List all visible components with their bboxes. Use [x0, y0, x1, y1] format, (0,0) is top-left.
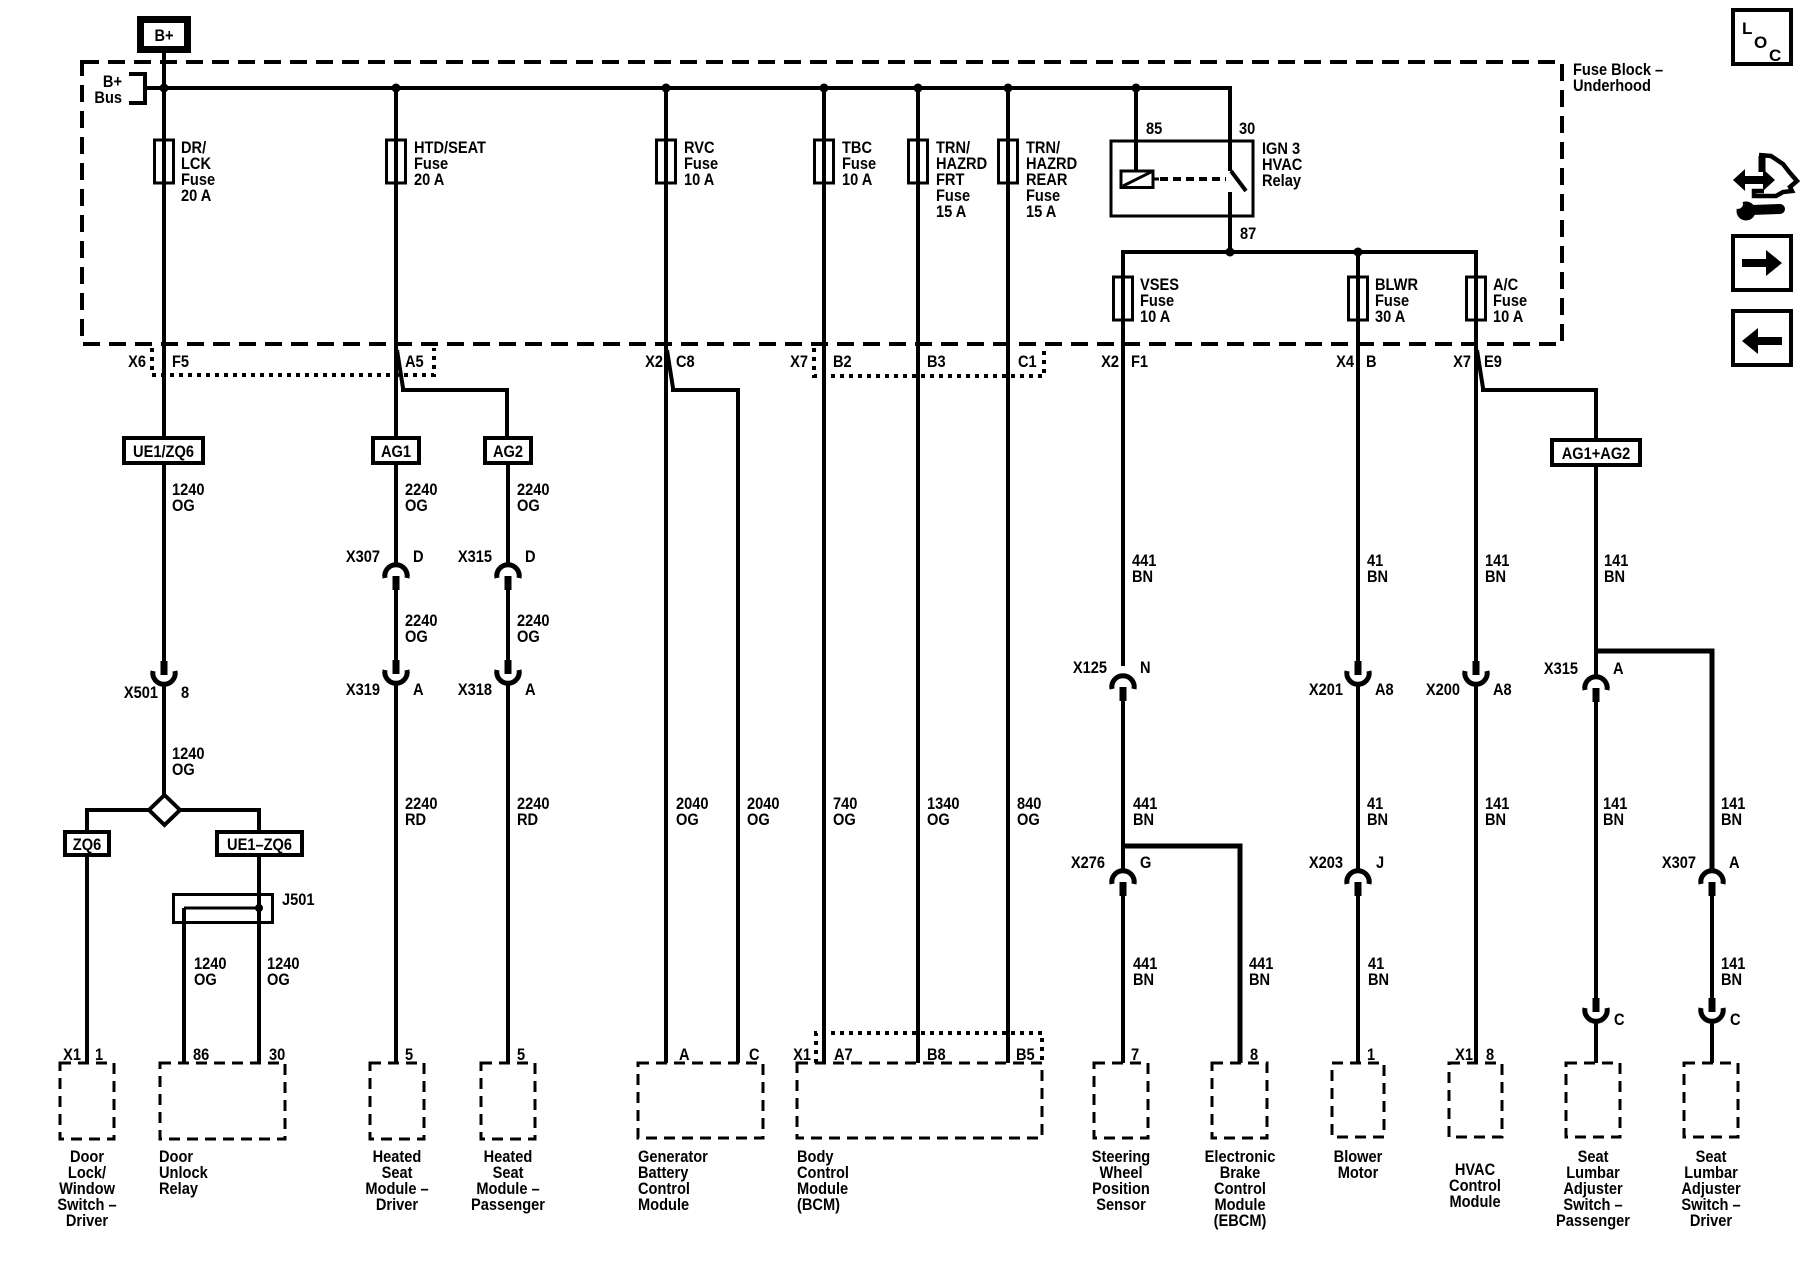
connector X501 pin 8	[124, 661, 189, 702]
svg-text:C1: C1	[1018, 353, 1037, 371]
fuse VSES 10A	[1114, 276, 1179, 326]
svg-text:A5: A5	[405, 353, 424, 371]
wire AG1+AG2 to X315	[1594, 465, 1598, 677]
wire B+ bus horizontal	[145, 86, 1230, 90]
node B3	[927, 353, 946, 371]
svg-text:C: C	[1614, 1011, 1625, 1029]
wire label 441 BN	[1132, 552, 1157, 586]
svg-text:X307: X307	[346, 548, 380, 566]
pin 87 label	[1240, 225, 1256, 243]
wire VSES drop	[1121, 250, 1125, 344]
svg-text:X318: X318	[458, 681, 492, 699]
pin C	[749, 1046, 760, 1064]
wire X315 to X318	[506, 590, 510, 660]
connector X307 pin D	[346, 548, 424, 590]
fuse DR/LCK 20A	[155, 139, 216, 205]
component HVAC Control Module	[1449, 1063, 1502, 1211]
wire ZQ6 to door lock switch	[85, 855, 89, 1063]
svg-text:OG: OG	[517, 497, 540, 515]
wire B+ terminal drop	[160, 53, 169, 344]
svg-text:(EBCM): (EBCM)	[1214, 1212, 1267, 1230]
fuse block underhood dashed border	[82, 62, 1562, 344]
wire label 1340 OG	[927, 795, 960, 829]
svg-text:OG: OG	[405, 497, 428, 515]
connector UE1/ZQ6	[124, 438, 203, 463]
relay IGN 3 HVAC box	[1111, 141, 1253, 216]
wire A/C drop	[1474, 250, 1478, 344]
connector UE1-ZQ6	[217, 832, 302, 855]
svg-text:BN: BN	[1721, 971, 1742, 989]
svg-text:J: J	[1376, 854, 1384, 872]
wire label 441 BN EBCM	[1249, 955, 1274, 989]
svg-text:J501: J501	[282, 891, 315, 909]
wire A5 to AG1	[394, 344, 398, 438]
svg-text:OG: OG	[517, 628, 540, 646]
svg-text:B: B	[1366, 353, 1377, 371]
node X4 B	[1336, 353, 1376, 371]
svg-text:10 A: 10 A	[1140, 308, 1171, 326]
wire X319 to heated seat driver	[394, 683, 398, 1063]
wire TBC drop	[820, 84, 829, 345]
wire X125 to X276	[1121, 701, 1125, 871]
connector ZQ6	[65, 832, 109, 855]
wire label 41 BN	[1368, 955, 1389, 989]
svg-text:OG: OG	[676, 811, 699, 829]
wire label 2240 OG	[405, 481, 438, 515]
svg-text:UE1/ZQ6: UE1/ZQ6	[133, 443, 194, 461]
connector X276 pin G	[1071, 854, 1152, 896]
svg-text:20 A: 20 A	[181, 187, 212, 205]
pin X1 A7	[793, 1046, 853, 1064]
relay actuation dashed link	[1160, 177, 1226, 181]
svg-text:Relay: Relay	[159, 1180, 198, 1198]
svg-text:X307: X307	[1662, 854, 1696, 872]
svg-text:Sensor: Sensor	[1096, 1196, 1146, 1214]
component Seat Lumbar Adjuster Switch - Driver	[1681, 1063, 1740, 1230]
component Door Lock/Window Switch - Driver	[57, 1063, 116, 1230]
svg-text:X7: X7	[790, 353, 808, 371]
svg-text:OG: OG	[1017, 811, 1040, 829]
wire RVC drop	[662, 84, 671, 345]
wire AG1 to X307	[394, 463, 398, 565]
svg-text:87: 87	[1240, 225, 1256, 243]
svg-text:OG: OG	[833, 811, 856, 829]
svg-text:RD: RD	[517, 811, 538, 829]
wire F5 to UE1/ZQ6	[162, 344, 166, 438]
svg-text:X501: X501	[124, 684, 158, 702]
svg-text:RD: RD	[405, 811, 426, 829]
svg-text:10 A: 10 A	[1493, 308, 1524, 326]
svg-text:OG: OG	[747, 811, 770, 829]
svg-text:G: G	[1140, 854, 1151, 872]
wire F1 to X125	[1121, 344, 1125, 666]
icon arrow left box	[1733, 311, 1791, 365]
svg-text:BN: BN	[1721, 811, 1742, 829]
svg-text:10 A: 10 A	[842, 171, 873, 189]
pin B5	[1016, 1046, 1035, 1064]
wire label 41 BN	[1367, 795, 1388, 829]
svg-text:BN: BN	[1132, 568, 1153, 586]
wire label 141 BN	[1485, 795, 1510, 829]
node B+ Bus label and bracket	[94, 73, 145, 107]
svg-text:BN: BN	[1368, 971, 1389, 989]
icon harness double arrow	[1733, 155, 1797, 221]
wire label 1240 OG	[172, 745, 205, 779]
svg-text:ZQ6: ZQ6	[73, 836, 102, 854]
wire B3 to B8	[916, 344, 920, 1063]
wire BLWR drop	[1356, 252, 1360, 344]
wire label 141 BN	[1721, 955, 1746, 989]
wire C1 to B5	[1006, 344, 1010, 1063]
svg-text:15 A: 15 A	[936, 203, 967, 221]
icon arrow right box	[1733, 236, 1791, 290]
svg-text:C: C	[1730, 1011, 1741, 1029]
wire label 2040 OG	[747, 795, 780, 829]
node A5	[405, 353, 424, 371]
wire label 141 BN	[1603, 795, 1628, 829]
svg-text:N: N	[1140, 659, 1151, 677]
wire label 141 BN	[1485, 552, 1510, 586]
svg-text:X125: X125	[1073, 659, 1107, 677]
fuse TRN/HAZRD REAR 15A	[999, 139, 1078, 221]
svg-text:E9: E9	[1484, 353, 1502, 371]
component Generator Battery Control Module	[638, 1063, 763, 1214]
pin 5 passenger	[517, 1046, 525, 1064]
pin 7	[1131, 1046, 1139, 1064]
wire J501 pin 30 leg	[257, 908, 261, 1063]
svg-text:BN: BN	[1604, 568, 1625, 586]
wire label 2240 RD	[517, 795, 550, 829]
wire B2 to A7	[822, 344, 826, 1063]
pin 86	[193, 1046, 209, 1064]
node C1	[1018, 353, 1037, 371]
wire B to X201	[1356, 344, 1360, 661]
svg-text:UE1–ZQ6: UE1–ZQ6	[227, 836, 292, 854]
wire X203 to pin 1	[1356, 896, 1360, 1063]
component Steering Wheel Position Sensor	[1092, 1063, 1150, 1214]
connector C driver	[1701, 998, 1741, 1029]
wire label 141 BN	[1604, 552, 1629, 586]
svg-text:D: D	[525, 548, 536, 566]
connector strip dotted box F5-A5	[152, 348, 434, 375]
wire label 1240 OG right	[267, 955, 300, 989]
wire C8 to pin A	[664, 344, 668, 1063]
wire E9 to X200	[1474, 344, 1478, 661]
wire X307 to X319	[394, 590, 398, 660]
wire X200 to HVAC	[1474, 684, 1478, 1063]
splice J501	[174, 891, 315, 922]
svg-text:10 A: 10 A	[684, 171, 715, 189]
svg-text:Module: Module	[1449, 1193, 1500, 1211]
svg-text:BN: BN	[1367, 568, 1388, 586]
svg-text:A: A	[413, 681, 424, 699]
node X2 C8	[645, 353, 695, 371]
pin 30	[269, 1046, 285, 1064]
wire label 1240 OG	[172, 481, 205, 515]
connector X307 pin A right	[1662, 854, 1740, 896]
pin X1 1	[63, 1046, 103, 1064]
wire ignition sub-bus	[1122, 248, 1476, 257]
wire splice horizontal	[87, 810, 259, 832]
B+ terminal	[141, 20, 188, 50]
wire label 2240 RD	[405, 795, 438, 829]
wire relay pin 30	[1228, 88, 1230, 171]
svg-text:OG: OG	[172, 761, 195, 779]
svg-text:X203: X203	[1309, 854, 1343, 872]
label Fuse Block - Underhood	[1573, 61, 1663, 95]
wire label 1240 OG left	[194, 955, 227, 989]
icon LOC box	[1733, 10, 1791, 65]
svg-text:X315: X315	[458, 548, 492, 566]
svg-text:A8: A8	[1375, 681, 1394, 699]
svg-text:X201: X201	[1309, 681, 1343, 699]
wire X201 to X203	[1356, 684, 1360, 871]
svg-text:X4: X4	[1336, 353, 1354, 371]
node X6 F5	[128, 353, 189, 371]
wire label 740 OG	[833, 795, 858, 829]
wire label 2240 OG	[517, 612, 550, 646]
fuse TRN/HAZRD FRT 15A	[909, 139, 988, 221]
BCM connector dotted box	[816, 1033, 1042, 1063]
node X7 E9	[1453, 353, 1502, 371]
component Door Unlock Relay	[159, 1063, 285, 1198]
wire UE1-ZQ6 to J501	[257, 855, 261, 908]
svg-text:Driver: Driver	[1690, 1212, 1732, 1230]
svg-text:X6: X6	[128, 353, 146, 371]
wire label 2240 OG	[517, 481, 550, 515]
wire label 41 BN	[1367, 552, 1388, 586]
svg-text:Passenger: Passenger	[471, 1196, 545, 1214]
svg-text:C8: C8	[676, 353, 695, 371]
svg-text:(BCM): (BCM)	[797, 1196, 840, 1214]
wire label 840 OG	[1017, 795, 1042, 829]
connector AG1	[373, 438, 419, 463]
wire UE1/ZQ6 to X501	[162, 463, 166, 661]
wire X315 to C passenger	[1594, 702, 1598, 998]
svg-text:Motor: Motor	[1338, 1164, 1379, 1182]
connector X203 pin J	[1309, 854, 1384, 896]
pin 8	[1250, 1046, 1258, 1064]
svg-text:Module: Module	[638, 1196, 689, 1214]
svg-text:BN: BN	[1249, 971, 1270, 989]
wire C to seat lumbar passenger	[1594, 1021, 1598, 1063]
svg-text:A: A	[1613, 660, 1624, 678]
connector X201 pin A8	[1309, 661, 1394, 699]
connector AG1+AG2	[1552, 440, 1640, 465]
connector X319 pin A	[346, 660, 424, 699]
wire label 441 BN	[1133, 795, 1158, 829]
svg-text:F1: F1	[1131, 353, 1148, 371]
wire E9 fork to AG1+AG2	[1477, 350, 1596, 440]
svg-text:Underhood: Underhood	[1573, 77, 1651, 95]
relay coil	[1121, 171, 1159, 188]
svg-text:Relay: Relay	[1262, 172, 1301, 190]
svg-text:15 A: 15 A	[1026, 203, 1057, 221]
svg-text:C: C	[1769, 46, 1781, 65]
wire relay pin 87	[1228, 192, 1232, 252]
connector X318 pin A	[458, 660, 536, 699]
pin B8	[927, 1046, 946, 1064]
fuse RVC 10A	[657, 139, 719, 189]
component Seat Lumbar Adjuster Switch - Passenger	[1556, 1063, 1630, 1230]
svg-text:OG: OG	[927, 811, 950, 829]
svg-text:AG1+AG2: AG1+AG2	[1562, 445, 1631, 463]
wire TRN/HAZRD REAR drop	[1004, 84, 1013, 345]
svg-text:BN: BN	[1133, 811, 1154, 829]
svg-text:L: L	[1742, 19, 1752, 38]
wire C to seat lumbar driver	[1710, 1021, 1714, 1063]
wire HTD/SEAT drop	[392, 84, 401, 345]
wire C8 fork to pin C	[667, 350, 738, 1063]
svg-text:D: D	[413, 548, 424, 566]
svg-text:X200: X200	[1426, 681, 1460, 699]
svg-text:OG: OG	[194, 971, 217, 989]
wire label 2240 OG	[405, 612, 438, 646]
fuse HTD/SEAT 20A	[387, 139, 487, 189]
svg-text:A8: A8	[1493, 681, 1512, 699]
svg-text:AG2: AG2	[493, 443, 523, 461]
svg-text:Driver: Driver	[66, 1212, 108, 1230]
wire X501 to splice diamond	[162, 684, 166, 797]
wire J501 pin 86 leg	[182, 908, 186, 1063]
wire X307 to C driver	[1710, 896, 1714, 998]
svg-text:X319: X319	[346, 681, 380, 699]
node X2 F1	[1101, 353, 1148, 371]
svg-text:BN: BN	[1485, 568, 1506, 586]
fuse A/C 10A	[1467, 276, 1528, 326]
wire label 441 BN	[1133, 955, 1158, 989]
svg-text:OG: OG	[405, 628, 428, 646]
wire A5 fork to AG2	[397, 350, 507, 438]
component Heated Seat Module - Driver	[365, 1063, 428, 1214]
connector X315 pin D	[458, 548, 536, 590]
svg-text:X2: X2	[1101, 353, 1119, 371]
pin 1	[1367, 1046, 1375, 1064]
wire branch to seat lumbar driver	[1596, 651, 1712, 871]
svg-text:B2: B2	[833, 353, 852, 371]
connector X200 pin A8	[1426, 661, 1512, 699]
component Heated Seat Module - Passenger	[471, 1063, 545, 1214]
component Blower Motor	[1332, 1063, 1384, 1182]
svg-text:20 A: 20 A	[414, 171, 445, 189]
svg-text:BN: BN	[1367, 811, 1388, 829]
svg-text:30: 30	[1239, 120, 1255, 138]
svg-text:85: 85	[1146, 120, 1162, 138]
pin 30 label	[1239, 120, 1255, 138]
pin A	[679, 1046, 690, 1064]
connector AG2	[485, 438, 531, 463]
fuse BLWR 30A	[1349, 276, 1419, 326]
svg-text:Passenger: Passenger	[1556, 1212, 1630, 1230]
connector X125 pin N	[1073, 659, 1151, 701]
fuse TBC 10A	[815, 139, 877, 189]
svg-text:BN: BN	[1133, 971, 1154, 989]
svg-text:30 A: 30 A	[1375, 308, 1406, 326]
svg-text:X7: X7	[1453, 353, 1471, 371]
svg-text:X276: X276	[1071, 854, 1105, 872]
node X7 B2	[790, 353, 852, 371]
wire X276 to pin 7	[1121, 896, 1125, 1063]
svg-text:Bus: Bus	[94, 89, 122, 107]
connector C passenger	[1585, 998, 1625, 1029]
svg-text:A: A	[525, 681, 536, 699]
svg-text:OG: OG	[267, 971, 290, 989]
wire branch to EBCM	[1123, 846, 1240, 1063]
relay name IGN 3 HVAC Relay	[1262, 140, 1303, 190]
svg-text:B3: B3	[927, 353, 946, 371]
svg-text:Driver: Driver	[376, 1196, 418, 1214]
svg-text:8: 8	[181, 684, 189, 702]
svg-text:OG: OG	[172, 497, 195, 515]
splice diamond junction	[149, 795, 180, 825]
component Body Control Module (BCM)	[797, 1063, 1042, 1214]
pin 85 label	[1146, 120, 1162, 138]
wire X318 to heated seat passenger	[506, 683, 510, 1063]
pin 5 driver	[405, 1046, 413, 1064]
connector strip dotted box B2-C1	[814, 348, 1044, 376]
svg-text:B+: B+	[154, 27, 173, 45]
svg-text:BN: BN	[1485, 811, 1506, 829]
wire label 141 BN driver	[1721, 795, 1746, 829]
svg-text:BN: BN	[1603, 811, 1624, 829]
svg-text:A: A	[1729, 854, 1740, 872]
svg-text:O: O	[1754, 33, 1767, 52]
svg-text:AG1: AG1	[381, 443, 411, 461]
svg-text:X315: X315	[1544, 660, 1578, 678]
component Electronic Brake Control Module (EBCM)	[1205, 1063, 1276, 1230]
wire label 2040 OG	[676, 795, 709, 829]
connector X315 pin A	[1544, 660, 1624, 702]
wire relay pin 85	[1132, 84, 1141, 172]
pin X1 8	[1455, 1046, 1494, 1064]
relay switch blade	[1231, 171, 1246, 191]
wire AG2 to X315	[506, 463, 510, 565]
svg-text:X2: X2	[645, 353, 663, 371]
wire TRN/HAZRD FRT drop	[914, 84, 923, 345]
svg-text:F5: F5	[172, 353, 189, 371]
